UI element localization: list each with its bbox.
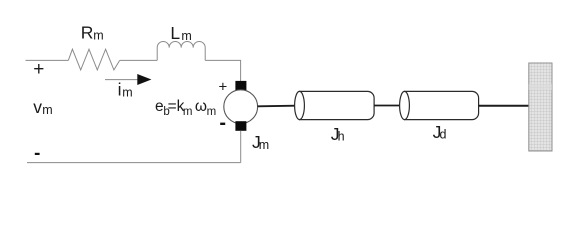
label im [118, 80, 133, 100]
label Lm [170, 23, 191, 43]
label Jd [433, 122, 447, 142]
label Jm [252, 132, 269, 152]
svg-text:m: m [259, 138, 269, 152]
svg-text:L: L [170, 23, 180, 43]
node - (motor bottom) [220, 123, 225, 125]
label vm [33, 97, 52, 117]
node - (source negative terminal) [35, 153, 40, 155]
inductor Lm [157, 41, 205, 60]
wire top-left lead [26, 59, 69, 61]
shaft Jd to wall [479, 105, 532, 107]
svg-text:m: m [93, 28, 103, 42]
shaft motor to Jh [258, 105, 296, 108]
motor armature circle Jm [224, 90, 258, 124]
svg-text:m: m [183, 106, 193, 118]
svg-text:i: i [118, 80, 122, 100]
resistor Rm [68, 49, 119, 70]
svg-text:+: + [33, 59, 44, 80]
shaft Jh to Jd [374, 105, 400, 107]
cylinder Jh left end ellipse [295, 91, 305, 119]
svg-text:m: m [122, 85, 132, 99]
svg-text:v: v [33, 97, 42, 117]
current arrow im [105, 74, 151, 85]
wire bottom return [27, 162, 241, 164]
wire inductor to motor top [205, 60, 240, 81]
svg-text:m: m [42, 103, 52, 117]
svg-text:R: R [81, 22, 94, 42]
svg-text:m: m [207, 106, 217, 118]
motor brush terminal top (black square) [235, 81, 246, 91]
svg-text:m: m [181, 29, 191, 43]
svg-text:+: + [219, 79, 228, 96]
wire motor bottom down [240, 131, 242, 163]
label eb=km·wm [155, 98, 216, 118]
svg-text:e: e [155, 98, 164, 115]
cylinder Jh body [300, 91, 375, 119]
svg-text:ω: ω [195, 98, 207, 115]
cylinder Jd left end ellipse [400, 91, 410, 119]
motor brush terminal bottom (black square) [235, 121, 246, 131]
label Rm [81, 22, 104, 42]
wall fixed support [529, 63, 552, 151]
svg-text:d: d [440, 128, 447, 142]
label Jh [331, 124, 345, 144]
svg-text:h: h [338, 130, 345, 144]
wire between resistor and inductor [120, 59, 158, 61]
cylinder Jd body [405, 91, 479, 119]
